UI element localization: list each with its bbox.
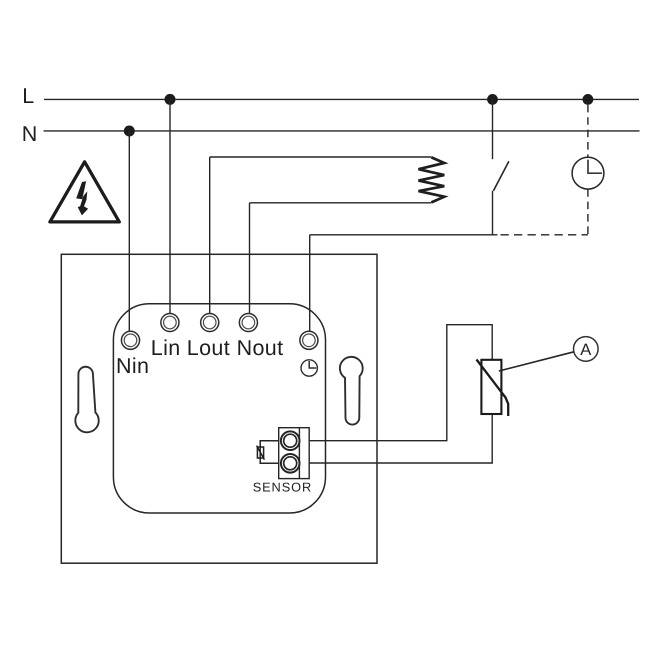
wire Lout to heater top — [210, 156, 432, 158]
wire switch bottom to timer terminal — [310, 234, 498, 236]
sensor terminal 2 — [281, 454, 300, 473]
svg-text:Nin: Nin — [116, 354, 149, 378]
wire L line — [44, 98, 639, 100]
warning triangle (high voltage) — [50, 162, 119, 222]
mounting slot right — [340, 357, 363, 425]
terminal Lout — [201, 313, 219, 331]
internal sensor bracket — [260, 441, 279, 464]
svg-text:Lin: Lin — [151, 336, 181, 360]
sensor terminal 1 — [281, 431, 300, 450]
svg-text:Lout: Lout — [187, 336, 230, 360]
junction dot on L (switch tap) — [487, 94, 498, 105]
wire Nin drop — [128, 131, 130, 331]
node A — [574, 337, 599, 362]
wire Lout riser — [209, 157, 211, 314]
wire N line — [44, 130, 640, 132]
thermostat module outline — [61, 254, 377, 563]
terminal timer — [300, 331, 318, 349]
mounting slot left — [75, 367, 98, 433]
svg-text:N: N — [22, 122, 38, 146]
node A pointer line — [499, 352, 574, 371]
sensor block divider — [298, 428, 300, 479]
svg-text:A: A — [580, 341, 591, 359]
dashed wire timer to switch line — [587, 189, 589, 235]
wire Nout to heater bottom — [250, 202, 432, 204]
terminal Lin — [161, 313, 179, 331]
resistor (heating load) — [419, 157, 445, 202]
svg-text:L: L — [22, 84, 34, 108]
svg-text:Nout: Nout — [237, 336, 284, 360]
thermistor (floor sensor) body — [481, 360, 501, 414]
timer clock hands — [588, 160, 602, 174]
wire Lin drop — [169, 99, 171, 313]
switch S1 upper lead — [492, 99, 494, 159]
junction dot on L (timer tap) — [583, 94, 594, 105]
clock icon on module — [301, 360, 317, 376]
junction dot on L (Lin tap) — [165, 94, 176, 105]
svg-text:SENSOR: SENSOR — [253, 480, 312, 495]
wire sensor terminal 2 to thermistor bottom — [309, 414, 492, 463]
switch S1 blade — [493, 161, 509, 191]
module inner face — [113, 304, 325, 513]
dashed wire switch to timer drop — [501, 234, 588, 236]
wire Nout riser — [249, 203, 251, 314]
timer clock body — [572, 157, 604, 189]
dashed wire L tap to timer — [587, 105, 589, 157]
wire sensor terminal 1 to thermistor loop — [309, 325, 492, 441]
switch S1 lower lead — [492, 191, 494, 236]
terminal Nin — [121, 331, 139, 349]
terminal Nout — [239, 313, 257, 331]
sensor terminal block — [279, 428, 310, 479]
junction dot on N (Nin tap) — [124, 126, 135, 137]
internal sensor symbol — [257, 446, 265, 460]
thermistor diagonal — [477, 360, 509, 417]
wire timer-terminal riser — [309, 235, 311, 332]
